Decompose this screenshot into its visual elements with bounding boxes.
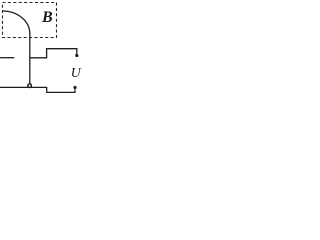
field region boundary B (dashed box) bbox=[3, 3, 57, 38]
wire (lower lead with step to terminal) bbox=[0, 87, 75, 92]
terminal dot (upper) bbox=[75, 54, 78, 57]
wire (left upper lead) bbox=[0, 57, 14, 59]
svg-text:B: B bbox=[41, 9, 53, 26]
node (terminal circle on lower lead) bbox=[28, 84, 32, 88]
curved wire (arc inside field region) bbox=[3, 11, 30, 34]
terminal dot (lower) bbox=[73, 86, 76, 89]
wire (upper branch with step to terminal) bbox=[30, 49, 77, 58]
svg-text:U: U bbox=[71, 65, 82, 80]
wire (vertical lead from arc to node) bbox=[29, 33, 31, 84]
